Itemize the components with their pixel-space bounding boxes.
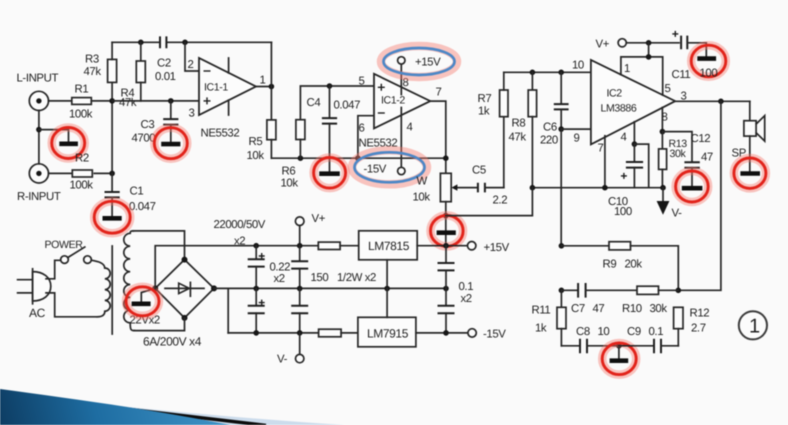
node IC1-1 out (269, 84, 275, 90)
svg-text:220: 220 (540, 135, 558, 147)
ground C11 (691, 45, 726, 79)
svg-text:47k: 47k (84, 66, 102, 78)
svg-text:R6: R6 (282, 166, 296, 178)
svg-text:IC1-1: IC1-1 (204, 82, 228, 94)
node R6 bottom (298, 155, 304, 161)
bridge rectifier diamond (143, 260, 214, 349)
ground C8/C9 (602, 343, 636, 375)
transformer primary winding (97, 268, 110, 317)
svg-text:0.1: 0.1 (459, 281, 474, 293)
wire IC2 output row (675, 100, 750, 102)
node bridge left (152, 285, 158, 291)
svg-text:+15V: +15V (415, 57, 441, 69)
svg-text:+15V: +15V (484, 242, 510, 254)
wire switch to primary (91, 260, 105, 268)
svg-text:x2: x2 (274, 273, 285, 285)
node mid rail c2 (297, 286, 303, 292)
svg-text:1: 1 (260, 75, 266, 87)
svg-text:0.01: 0.01 (155, 71, 176, 83)
wire pin6 link (358, 116, 374, 159)
wire IC1-1 output (256, 86, 271, 88)
svg-text:IC1-2: IC1-2 (381, 95, 405, 107)
capacitor C11 100 (672, 31, 707, 81)
capacitor 22000/50V lower (248, 289, 265, 333)
node mid rail c1 (253, 286, 259, 292)
svg-text:30k: 30k (650, 303, 668, 315)
capacitor C8 10 (561, 326, 619, 353)
node pin9 tap (558, 126, 564, 132)
svg-text:C7: C7 (571, 303, 585, 315)
terminal V- (277, 333, 304, 366)
pin 8 stub and +15V terminal (398, 57, 442, 95)
wire out1 down to R5 (270, 87, 272, 120)
wire V- rail (228, 332, 318, 334)
potentiometer W 10k (413, 173, 478, 203)
svg-text:C11: C11 (672, 69, 691, 81)
annotation circled 1 (739, 311, 767, 339)
capacitor C4 0.047 (307, 86, 361, 171)
svg-text:V-: V- (672, 208, 683, 220)
svg-text:4: 4 (621, 132, 627, 144)
node R4 tap (138, 40, 144, 46)
svg-text:100k: 100k (70, 180, 94, 192)
node R1 junction (109, 98, 115, 104)
node pin8 (660, 129, 666, 135)
svg-text:47k: 47k (509, 132, 527, 144)
capacitor C9 0.1 (619, 326, 678, 353)
node C3 tap (168, 98, 174, 104)
svg-text:AC: AC (29, 306, 46, 320)
svg-text:C12: C12 (691, 133, 711, 145)
svg-text:LM7915: LM7915 (367, 327, 409, 341)
wire jog to ground column (446, 188, 533, 216)
svg-text:47: 47 (701, 152, 713, 164)
wire IC1-2 output (430, 101, 446, 173)
wire L row (49, 100, 72, 102)
svg-text:R11: R11 (532, 305, 551, 317)
svg-text:C1: C1 (130, 186, 144, 198)
capacitor C2 0.01 (155, 36, 176, 83)
node C6 top (558, 70, 564, 76)
svg-text:x2: x2 (461, 293, 472, 305)
resistor R5 10k (247, 120, 276, 162)
svg-text:V+: V+ (312, 213, 326, 225)
wire to input ground (39, 130, 69, 142)
node V- rail c2 (297, 330, 303, 336)
regulator LM7915 (358, 317, 416, 347)
svg-text:R2: R2 (75, 153, 89, 165)
resistor R1 100k (69, 84, 93, 121)
wire LM7915 out (416, 332, 468, 334)
capacitor C10 100 (608, 144, 643, 218)
ground C4 (314, 158, 346, 189)
svg-text:C9: C9 (627, 326, 641, 338)
switch POWER (45, 239, 92, 263)
node C4 tap (327, 83, 333, 89)
wire summing node column (111, 82, 113, 173)
resistor R2 100k (70, 153, 94, 192)
wire pin9 link (561, 128, 591, 130)
wire LM7915 gnd stem (386, 289, 388, 318)
wire speaker junction down to feedback (678, 101, 721, 290)
node R13 bottom (660, 185, 666, 191)
svg-text:1/2W x2: 1/2W x2 (337, 272, 376, 284)
svg-text:LM7815: LM7815 (368, 239, 410, 253)
node bridge top (182, 257, 188, 263)
wire LM7815 gnd stem (386, 260, 388, 289)
svg-text:2.2: 2.2 (493, 195, 508, 207)
svg-text:R1: R1 (75, 84, 89, 96)
svg-text:100: 100 (700, 68, 718, 80)
node output/speaker tap (718, 99, 724, 105)
svg-text:L-INPUT: L-INPUT (17, 73, 59, 85)
svg-text:R8: R8 (512, 118, 526, 130)
node bridge right (211, 285, 217, 291)
wire R1 to node (91, 100, 112, 102)
AC plug (18, 269, 51, 320)
svg-text:-15V: -15V (483, 329, 506, 341)
node mid rail c3 (443, 286, 449, 292)
resistor R7 1k (478, 72, 509, 187)
svg-text:30k: 30k (670, 148, 687, 160)
svg-text:20k: 20k (625, 259, 643, 271)
capacitor 0.1 lower (438, 289, 455, 333)
node R8 top (530, 70, 536, 76)
node C8/C9 ground tap (616, 343, 622, 349)
node V+ tap (646, 40, 652, 46)
wire out1 up link (270, 42, 272, 86)
svg-text:100: 100 (614, 206, 632, 218)
resistor R8 47k (509, 72, 537, 187)
op-amp IC1-1 NE5532 (188, 58, 266, 140)
resistor R13 30k (659, 132, 688, 188)
ground input (52, 128, 85, 159)
svg-text:POWER: POWER (45, 239, 84, 251)
wire R2 to node (94, 172, 112, 174)
svg-text:0.1: 0.1 (649, 326, 664, 338)
svg-text:10k: 10k (281, 178, 299, 190)
diode inside bridge (165, 282, 204, 296)
ground C1 (94, 201, 130, 233)
node supply link (646, 54, 652, 60)
svg-text:R7: R7 (478, 93, 492, 105)
decorative slide wedge pale band (0, 394, 352, 425)
node pin4 (632, 141, 638, 147)
svg-text:R-INPUT: R-INPUT (17, 191, 61, 203)
node jog tap (443, 213, 449, 219)
node bridge bottom (182, 315, 188, 321)
wire top-right rail (504, 71, 591, 73)
svg-text:3: 3 (189, 108, 195, 120)
wire main lower rail (532, 187, 663, 189)
svg-text:6A/200V x4: 6A/200V x4 (143, 335, 202, 349)
resistor R6 10k (281, 120, 305, 190)
capacitor 0.22 lower (291, 289, 308, 333)
svg-text:C8: C8 (576, 326, 590, 338)
node mid rail reg (384, 286, 390, 292)
ground C3 (154, 128, 187, 159)
svg-text:7: 7 (598, 143, 604, 155)
annotation blue ellipse -15V (352, 150, 427, 184)
regulator LM7815 (359, 231, 418, 260)
node V+ rail c1 (253, 243, 259, 249)
resistor R9 20k (561, 242, 678, 291)
transformer core (111, 246, 113, 334)
wire R3 top to feedback wire (111, 42, 113, 59)
capacitor C7 47 (561, 283, 604, 315)
ground centre tap 22Vx2 (126, 287, 159, 316)
wire R5 bottom (270, 140, 272, 159)
svg-text:47k: 47k (119, 97, 137, 109)
svg-text:V+: V+ (596, 39, 610, 51)
svg-text:R9: R9 (603, 259, 617, 271)
capacitor C1 0.047 (105, 173, 156, 216)
node pin7 bottom (602, 185, 608, 191)
svg-text:2: 2 (188, 59, 194, 71)
svg-text:1k: 1k (535, 323, 547, 335)
svg-text:C6: C6 (543, 122, 557, 134)
wire LM7815 out (417, 245, 467, 247)
wire bridge bottom to secondary (134, 318, 185, 331)
svg-text:R10: R10 (622, 303, 642, 315)
capacitor 0.1 upper (438, 246, 474, 305)
resistor 150 lower (319, 329, 358, 337)
label 22000/50V x2 (214, 219, 266, 248)
svg-text:LM3886: LM3886 (601, 103, 637, 115)
speaker SP (732, 101, 765, 171)
pin 4 stub and -15V terminal (364, 108, 405, 176)
svg-text:0.047: 0.047 (334, 100, 361, 112)
wire mid rail (271, 157, 445, 159)
capacitor 22000/50V upper (248, 246, 265, 289)
svg-text:1: 1 (624, 63, 630, 75)
svg-text:W: W (417, 176, 428, 188)
svg-text:R5: R5 (249, 136, 263, 148)
node -15V tap (443, 330, 449, 336)
svg-text:x2: x2 (234, 236, 245, 248)
wire pin8 to C12 (662, 132, 692, 162)
svg-text:C4: C4 (307, 97, 321, 109)
resistor R4 47k (119, 42, 145, 109)
wire pin4 stub (633, 122, 635, 144)
svg-text:47: 47 (593, 303, 605, 315)
wire pot bottom column (445, 202, 447, 246)
node R8 bottom (530, 185, 536, 191)
capacitor C6 220 (540, 72, 569, 146)
terminal V+ (596, 39, 627, 51)
svg-text:V-: V- (277, 354, 288, 366)
svg-text:150: 150 (311, 272, 329, 284)
node +15V tap (443, 243, 449, 249)
annotation blue ellipse +15V (381, 46, 457, 77)
node fb top (559, 243, 565, 249)
node V+ rail c2 (297, 243, 303, 249)
wire plug to transformer bottom (46, 293, 97, 317)
svg-text:4: 4 (407, 122, 413, 134)
wire pin2 link (185, 42, 199, 71)
wire pin3 row (112, 100, 199, 102)
svg-text:10k: 10k (413, 192, 431, 204)
decorative slide wedge blue (0, 389, 233, 425)
terminal V+ (295, 213, 325, 246)
ground main (pot/PSU) (431, 215, 464, 246)
resistor 150 upper (311, 242, 377, 284)
connector R-INPUT jack (17, 164, 61, 203)
svg-text:-15V: -15V (364, 164, 387, 176)
svg-text:1k: 1k (478, 106, 490, 118)
capacitor C3 4700 (132, 101, 179, 145)
resistor R3 47k (84, 54, 117, 83)
svg-text:IC2: IC2 (607, 88, 623, 100)
transformer secondary winding (124, 231, 135, 331)
wire pin8 stub (661, 108, 663, 132)
op-amp IC2 LM3886 (572, 60, 687, 155)
wire R6 top to pin5 (300, 86, 374, 120)
resistor R10 30k (586, 286, 678, 315)
node pin6 tap (355, 155, 361, 161)
node pin2 tap (182, 40, 188, 46)
supply arrow V- (657, 188, 682, 220)
connector L-INPUT jack (17, 73, 59, 111)
node out2 feedback (443, 155, 449, 161)
wire R row (49, 172, 73, 174)
wire pin7 (604, 136, 606, 188)
wire top feedback (112, 41, 271, 43)
wire bridge left up to V+ rail (155, 246, 318, 289)
wire C6 column down (560, 129, 562, 246)
svg-text:2.7: 2.7 (691, 323, 706, 335)
svg-text:6: 6 (359, 123, 365, 135)
svg-text:10k: 10k (247, 150, 265, 162)
svg-text:100k: 100k (69, 109, 93, 121)
op-amp IC1-2 NE5532 (359, 74, 442, 150)
node V- rail c1 (253, 330, 259, 336)
wire V+ row (626, 42, 679, 44)
resistor R11 1k (532, 290, 567, 346)
svg-text:C5: C5 (472, 165, 486, 177)
wire pin4 jog (634, 144, 648, 188)
node input-gnd junction (36, 127, 42, 133)
svg-text:5: 5 (359, 76, 365, 88)
svg-text:5: 5 (665, 83, 671, 95)
svg-text:22000/50V: 22000/50V (214, 219, 266, 231)
svg-text:10: 10 (572, 60, 584, 72)
node fb mid-left (559, 288, 565, 294)
svg-text:C2: C2 (157, 58, 171, 70)
resistor R12 2.7 (674, 307, 710, 346)
svg-text:NE5532: NE5532 (201, 128, 240, 140)
capacitor C12 47 (684, 133, 713, 186)
wire secondary top to bridge (133, 231, 185, 260)
ground SP (734, 158, 766, 188)
svg-text:0.22: 0.22 (270, 262, 291, 274)
wire bridge right to mid rail and V- jog (214, 288, 446, 333)
capacitor 0.22 upper (270, 246, 309, 289)
wire plug to switch (46, 260, 61, 279)
svg-text:R3: R3 (85, 54, 99, 66)
terminal -15V (468, 329, 506, 341)
terminal +15V (468, 242, 510, 255)
svg-text:R12: R12 (690, 308, 710, 320)
node fb mid-right (676, 288, 682, 294)
capacitor C5 2.2 (472, 165, 507, 207)
svg-text:9: 9 (574, 133, 580, 145)
wire pin1/pin5 supply link (621, 43, 663, 95)
svg-text:7: 7 (436, 87, 442, 99)
node R2 junction (109, 171, 115, 177)
ground C12 (676, 171, 709, 202)
svg-text:10: 10 (598, 326, 610, 338)
wire jack column (38, 111, 40, 164)
svg-text:1: 1 (749, 316, 760, 338)
decorative slide wedge black band (40, 399, 266, 425)
svg-text:C3: C3 (141, 119, 155, 131)
